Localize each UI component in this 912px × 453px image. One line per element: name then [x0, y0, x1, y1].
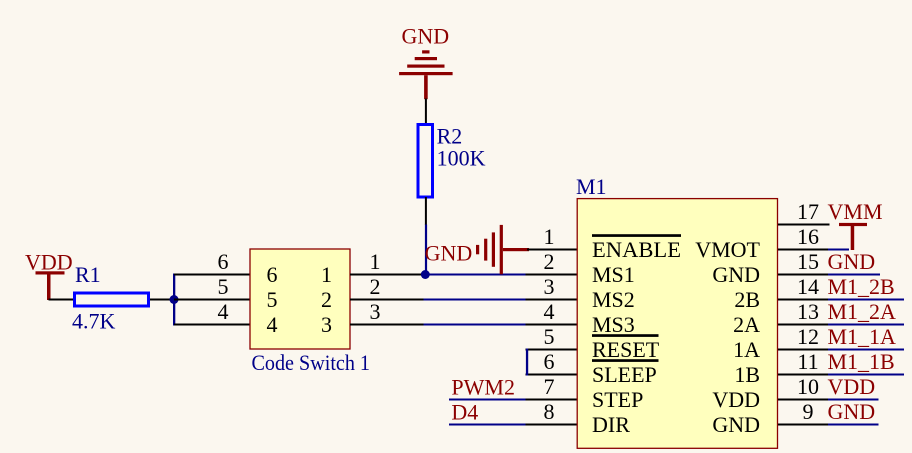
wire (navy, to chip pin4): [424, 324, 527, 326]
wire (net M1_1B): [828, 374, 904, 376]
svg-text:14: 14: [797, 274, 819, 299]
svg-text:1: 1: [321, 262, 332, 287]
wire (net M1_2A): [828, 324, 904, 326]
power port GND (top): [399, 24, 453, 100]
svg-text:2: 2: [370, 274, 381, 299]
svg-text:5: 5: [267, 287, 278, 312]
svg-text:M1_2A: M1_2A: [828, 299, 897, 324]
chip pin 1 stub: [527, 249, 578, 251]
overline ENABLE: [592, 234, 681, 237]
svg-text:Code Switch 1: Code Switch 1: [252, 350, 371, 375]
svg-text:5: 5: [544, 324, 555, 349]
svg-text:2: 2: [544, 249, 555, 274]
power port VMM: [839, 223, 867, 250]
wire (navy, junction to chip pin2): [421, 274, 527, 276]
svg-text:1: 1: [370, 249, 381, 274]
wire (VDD to R1): [49, 299, 76, 301]
svg-text:MS2: MS2: [592, 287, 635, 312]
wire (R1 to junction): [150, 299, 174, 301]
svg-text:16: 16: [797, 224, 819, 249]
chip pin 5 stub: [526, 349, 578, 351]
wire (navy bracket RESET-SLEEP): [526, 349, 528, 376]
svg-text:STEP: STEP: [592, 387, 643, 412]
op-amp/driver U: chip M1 body: [577, 199, 777, 449]
power port GND (at ENABLE pin): [425, 225, 529, 274]
svg-text:VMOT: VMOT: [695, 237, 760, 262]
svg-text:VDD: VDD: [712, 387, 760, 412]
wire (net VMM pin16): [828, 249, 849, 251]
svg-text:1: 1: [544, 224, 555, 249]
wire (net PWM2): [449, 399, 526, 401]
wire (net VDD pin10): [828, 399, 879, 401]
svg-text:5: 5: [218, 274, 229, 299]
power port VDD: [25, 250, 73, 301]
svg-text:RESET: RESET: [592, 337, 660, 362]
chip pin 14 stub: [778, 299, 830, 301]
svg-text:VDD: VDD: [25, 250, 73, 275]
svg-text:12: 12: [797, 324, 819, 349]
svg-text:11: 11: [797, 349, 818, 374]
chip pin 10 stub: [778, 399, 830, 401]
chip pin 12 stub: [778, 349, 830, 351]
wire (switch pin1 to junction): [350, 274, 421, 276]
wire (net M1_1A): [828, 349, 904, 351]
svg-text:VMM: VMM: [828, 199, 883, 224]
svg-text:1A: 1A: [733, 337, 760, 362]
svg-text:2: 2: [321, 287, 332, 312]
svg-text:15: 15: [797, 249, 819, 274]
chip pin 9 stub: [778, 424, 830, 426]
svg-text:M1: M1: [576, 174, 607, 199]
svg-text:M1_2B: M1_2B: [828, 274, 895, 299]
svg-text:8: 8: [544, 399, 555, 424]
svg-text:7: 7: [544, 374, 555, 399]
svg-text:6: 6: [218, 249, 229, 274]
wire (net GND pin15): [828, 274, 880, 276]
wire (navy, R2 to junction): [425, 225, 427, 276]
resistor R2: [418, 125, 433, 198]
overline SLEEP: [592, 359, 659, 362]
wire (net D4): [449, 424, 526, 426]
chip pin 17 stub: [778, 224, 830, 226]
chip pin 2 stub: [526, 274, 578, 276]
svg-text:PWM2: PWM2: [451, 375, 515, 400]
svg-text:GND: GND: [828, 249, 876, 274]
wire (navy, to chip pin3): [424, 299, 527, 301]
wire (GND stem to R2 top): [425, 99, 427, 126]
wire (to switch pin 4): [174, 324, 250, 326]
wire (navy vertical bus): [173, 274, 175, 326]
chip pin 6 stub: [526, 374, 578, 376]
wire (R2 bottom pin stub): [425, 197, 427, 225]
svg-text:3: 3: [321, 312, 332, 337]
svg-text:3: 3: [370, 299, 381, 324]
junction (MS1 node): [421, 270, 430, 279]
wire (net M1_2B): [828, 299, 904, 301]
chip pin 16 stub: [778, 249, 830, 251]
svg-text:13: 13: [797, 299, 819, 324]
junction (R1 node): [170, 295, 179, 304]
svg-text:DIR: DIR: [592, 412, 630, 437]
svg-text:GND: GND: [425, 241, 473, 266]
svg-text:M1_1B: M1_1B: [828, 349, 895, 374]
svg-text:D4: D4: [451, 400, 478, 425]
svg-text:R1: R1: [75, 262, 101, 287]
chip pin 4 stub: [526, 324, 578, 326]
svg-text:MS1: MS1: [592, 262, 635, 287]
svg-text:MS3: MS3: [592, 312, 635, 337]
wire (switch pin2 out): [350, 299, 424, 301]
chip pin 7 stub: [526, 399, 578, 401]
wire (to switch pin 5): [174, 299, 250, 301]
svg-text:6: 6: [267, 262, 278, 287]
svg-text:9: 9: [803, 399, 814, 424]
svg-text:17: 17: [797, 199, 819, 224]
svg-text:4.7K: 4.7K: [72, 309, 116, 334]
svg-text:100K: 100K: [437, 146, 486, 171]
svg-text:GND: GND: [402, 24, 450, 49]
overline RESET: [592, 334, 659, 337]
svg-text:4: 4: [267, 312, 278, 337]
svg-text:10: 10: [797, 374, 819, 399]
chip pin 15 stub: [778, 274, 830, 276]
code switch S1 body: [250, 249, 350, 349]
svg-text:3: 3: [544, 274, 555, 299]
resistor R1: [75, 293, 149, 306]
svg-text:SLEEP: SLEEP: [592, 362, 657, 387]
svg-text:4: 4: [544, 299, 555, 324]
wire (net GND pin9): [828, 424, 879, 426]
svg-text:M1_1A: M1_1A: [828, 324, 897, 349]
svg-text:1B: 1B: [734, 362, 760, 387]
chip pin 11 stub: [778, 374, 830, 376]
wire (switch pin3 out): [350, 324, 424, 326]
svg-text:GND: GND: [712, 262, 760, 287]
chip pin 8 stub: [526, 424, 578, 426]
svg-text:4: 4: [218, 299, 229, 324]
chip pin 3 stub: [526, 299, 578, 301]
svg-text:ENABLE: ENABLE: [592, 237, 681, 262]
wire (to switch pin 6): [174, 274, 250, 276]
svg-text:6: 6: [544, 349, 555, 374]
svg-text:GND: GND: [712, 412, 760, 437]
svg-text:2B: 2B: [734, 287, 760, 312]
svg-text:VDD: VDD: [828, 374, 876, 399]
svg-text:GND: GND: [828, 399, 876, 424]
chip pin 13 stub: [778, 324, 830, 326]
svg-text:2A: 2A: [733, 312, 760, 337]
